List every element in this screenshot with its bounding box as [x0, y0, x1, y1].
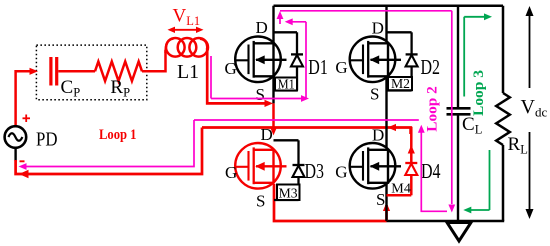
loop1 arrow at M3 drain: [270, 127, 277, 135]
resistor Rp: [95, 62, 142, 82]
transistor M2: [350, 37, 396, 83]
loop1 arrow into Cp: [30, 68, 39, 75]
loop1 arrow to node A: [265, 100, 274, 107]
svg-text:Loop 2: Loop 2: [425, 86, 441, 132]
loop3 wire down right: [489, 150, 491, 210]
source PD: [14, 148, 16, 161]
loop1 arrow into M4 source: [385, 205, 388, 221]
svg-text:D: D: [372, 126, 384, 145]
svg-text:PD: PD: [36, 128, 58, 150]
loop2 wire to M1 drain: [288, 21, 306, 23]
loop2 wire bottom jog: [421, 129, 447, 211]
capacitor Cp: [49, 57, 52, 86]
loop1 arrow at PD return: [19, 170, 29, 178]
D4 bottom connector: [387, 194, 412, 197]
svg-text:S: S: [376, 190, 385, 209]
svg-text:G: G: [225, 163, 237, 182]
svg-text:M1: M1: [278, 77, 295, 92]
loop2 wire along L1 output: [210, 56, 212, 99]
loop2 arrow up at D4: [418, 125, 425, 133]
right branch wire from top rail to RL: [502, 6, 505, 93]
diode D2: [406, 53, 418, 55]
loop2 wire along top rail: [280, 10, 452, 12]
svg-text:D: D: [261, 125, 273, 144]
diode branch D2 connectors: [387, 31, 412, 33]
resistor RL: [496, 93, 510, 145]
svg-text:M2: M2: [391, 77, 410, 92]
VL1 double arrow: [171, 29, 200, 31]
svg-text:S: S: [370, 84, 379, 103]
svg-text:D4: D4: [421, 159, 441, 183]
capacitor CL branch wire lower: [457, 115, 459, 221]
capacitor CL: [447, 107, 471, 110]
svg-text:S: S: [256, 85, 265, 104]
wire L1 to node A: [207, 48, 266, 103]
loop2 wire to M1 source node: [211, 98, 301, 100]
loop1 arrow on return wire: [388, 124, 397, 131]
svg-text:G: G: [335, 163, 347, 182]
right leg wire (M2 drain / node B / M4): [385, 6, 387, 221]
loop1 return wire (horizontal to D4): [202, 128, 411, 135]
Vdc annotation arrow lower: [529, 132, 531, 214]
capacitor CL branch wire upper: [457, 6, 459, 107]
diode D4: [405, 162, 417, 164]
plus sign: [23, 117, 31, 119]
minus sign: [20, 160, 25, 162]
label box M3: [277, 185, 300, 201]
svg-text:D2: D2: [421, 55, 441, 79]
diode branch D1 connectors: [274, 31, 298, 33]
left leg wire (M1 drain from top rail): [272, 6, 274, 104]
dashed box around Cp Rp: [36, 45, 146, 100]
loop3 wire bottom with arrow: [470, 209, 490, 211]
wire M3 source to bottom rail (red): [274, 184, 387, 221]
loop2 wire down to PD return: [25, 120, 194, 167]
label box M2: [388, 77, 412, 90]
ground: [447, 223, 471, 242]
loop2 wire down right side: [451, 11, 453, 204]
transistor M1: [235, 37, 281, 83]
svg-text:D: D: [256, 18, 268, 37]
loop2 arrow to PD: [19, 163, 27, 170]
node A wire (red, M1 source to M3 drain): [272, 103, 275, 130]
svg-text:M3: M3: [279, 187, 298, 202]
inductor L1: [166, 39, 174, 53]
diode D3: [293, 164, 305, 166]
wire RL to bottom rail: [502, 145, 505, 221]
svg-text:Loop 1: Loop 1: [99, 127, 137, 143]
svg-text:L1: L1: [177, 61, 199, 83]
loop2 wire up M1 branch: [305, 22, 307, 99]
diode branch D4 (red): [409, 128, 412, 163]
svg-text:D: D: [372, 19, 384, 38]
loop3 wire up from CL: [463, 17, 465, 97]
bottom rail wire (black part): [387, 220, 505, 223]
svg-text:S: S: [256, 192, 265, 211]
transistor M4: [350, 143, 396, 189]
svg-text:D3: D3: [305, 159, 325, 183]
wire PD to Cp: [16, 71, 30, 126]
wire Cp to Rp: [58, 70, 95, 73]
loop1 arrow on D4 branch: [408, 145, 415, 154]
diode D1: [291, 53, 303, 55]
svg-text:M4: M4: [391, 181, 411, 196]
svg-text:G: G: [225, 59, 237, 78]
svg-text:D1: D1: [308, 55, 328, 79]
loop3 wire top with arrow: [464, 16, 486, 18]
top rail wire: [274, 5, 504, 8]
svg-text:G: G: [335, 58, 347, 77]
loop2 wire up to top rail: [279, 16, 281, 24]
label box M1: [275, 78, 297, 91]
svg-text:Loop 3: Loop 3: [471, 70, 487, 116]
Vdc annotation arrow upper: [529, 10, 531, 88]
wire Rp to L1: [142, 50, 166, 71]
transistor M3 (red, conducting): [235, 143, 281, 189]
diode branch D3 connectors: [274, 139, 299, 141]
loop2 return wire (long horizontal): [194, 119, 419, 121]
wire PD bottom to return line: [16, 128, 202, 175]
